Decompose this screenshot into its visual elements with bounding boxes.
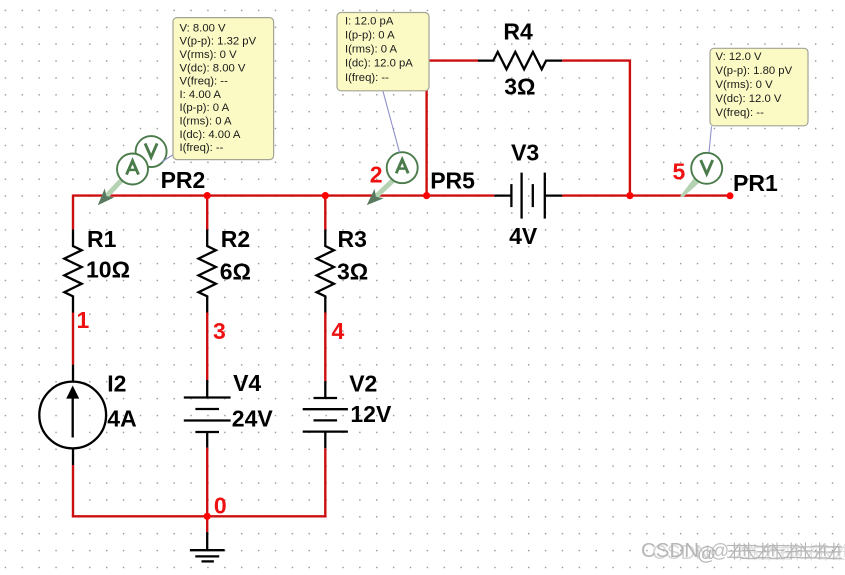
svg-text:V(freq): --: V(freq): -- xyxy=(180,76,229,88)
svg-text:24V: 24V xyxy=(232,406,274,432)
svg-text:V(freq): --: V(freq): -- xyxy=(716,107,765,119)
svg-text:V4: V4 xyxy=(233,370,261,396)
svg-text:10Ω: 10Ω xyxy=(86,256,130,282)
svg-text:V(p-p): 1.80 pV: V(p-p): 1.80 pV xyxy=(716,65,793,77)
svg-text:I(rms): 0 A: I(rms): 0 A xyxy=(180,116,233,128)
svg-text:I(p-p): 0 A: I(p-p): 0 A xyxy=(180,102,230,114)
svg-text:4V: 4V xyxy=(509,223,538,249)
svg-text:V(dc): 12.0 V: V(dc): 12.0 V xyxy=(716,93,782,105)
svg-text:V: 12.0 V: V: 12.0 V xyxy=(716,51,763,63)
svg-text:4A: 4A xyxy=(107,406,136,432)
svg-text:12V: 12V xyxy=(350,401,392,427)
svg-text:2: 2 xyxy=(370,162,383,188)
svg-text:3: 3 xyxy=(213,318,226,344)
svg-text:R2: R2 xyxy=(221,226,250,252)
svg-text:I(freq): --: I(freq): -- xyxy=(180,142,224,154)
svg-text:6Ω: 6Ω xyxy=(220,259,251,285)
svg-text:I2: I2 xyxy=(107,371,126,397)
svg-text:PR2: PR2 xyxy=(161,167,206,193)
svg-text:0: 0 xyxy=(214,493,227,519)
svg-text:5: 5 xyxy=(673,159,686,185)
svg-text:I: 4.00 A: I: 4.00 A xyxy=(180,89,222,101)
svg-text:R1: R1 xyxy=(87,226,117,252)
svg-text:I(freq): --: I(freq): -- xyxy=(345,72,389,84)
svg-text:V2: V2 xyxy=(349,370,377,396)
svg-text:R3: R3 xyxy=(338,226,367,252)
svg-text:I: 12.0 pA: I: 12.0 pA xyxy=(345,15,394,27)
svg-text:I(rms): 0 A: I(rms): 0 A xyxy=(345,44,398,56)
svg-text:V3: V3 xyxy=(511,139,539,165)
svg-text:PR1: PR1 xyxy=(733,170,778,196)
svg-text:V(rms): 0 V: V(rms): 0 V xyxy=(180,49,238,61)
svg-text:V(p-p): 1.32 pV: V(p-p): 1.32 pV xyxy=(180,36,257,48)
svg-text:4: 4 xyxy=(332,318,345,344)
svg-text:R4: R4 xyxy=(503,19,533,45)
svg-text:@: @ xyxy=(710,541,729,562)
svg-text:PR5: PR5 xyxy=(430,168,475,194)
svg-text:I(p-p): 0 A: I(p-p): 0 A xyxy=(345,30,395,42)
svg-text:V: 8.00 V: V: 8.00 V xyxy=(180,22,227,34)
svg-text:V(rms): 0 V: V(rms): 0 V xyxy=(716,79,774,91)
svg-text:V(dc): 8.00 V: V(dc): 8.00 V xyxy=(180,62,246,74)
svg-text:I(dc): 4.00 A: I(dc): 4.00 A xyxy=(180,129,241,141)
svg-text:I(dc): 12.0 pA: I(dc): 12.0 pA xyxy=(345,58,413,70)
svg-text:3Ω: 3Ω xyxy=(504,74,535,100)
svg-text:1: 1 xyxy=(77,307,90,333)
svg-text:3Ω: 3Ω xyxy=(337,259,368,285)
